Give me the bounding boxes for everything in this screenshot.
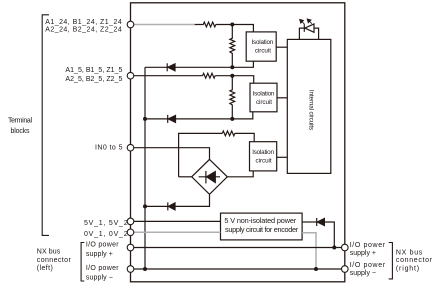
wire: bridge left vertex: [179, 176, 192, 178]
junction: R1/R2 top: [230, 23, 234, 27]
wire: U2 to internal circuits: [277, 97, 287, 99]
svg-text:circuit: circuit: [255, 48, 271, 55]
svg-text:NX bus: NX bus: [37, 248, 61, 255]
terminal circles: [127, 21, 348, 272]
svg-text:I/O power: I/O power: [86, 265, 119, 272]
wire: bridge bottom to 0V bus: [175, 194, 210, 206]
wire: 5V input: [134, 75, 203, 77]
isolation circuit U1: [246, 32, 276, 61]
svg-text:A2_24, B2_24, Z2_24: A2_24, B2_24, Z2_24: [45, 27, 122, 34]
LED PL1: [304, 24, 314, 32]
wire: power box to D4: [302, 221, 317, 223]
terminal A_5: [127, 72, 134, 79]
svg-text:5V_1, 5V_2: 5V_1, 5V_2: [84, 220, 128, 227]
junction: gray drop on - rail: [314, 267, 318, 271]
wire: U1 bottom return: [175, 61, 253, 67]
svg-text:Terminal: Terminal: [8, 118, 32, 125]
diode D3: [168, 202, 175, 210]
terminal I/O + left: [127, 244, 134, 251]
svg-text:NX bus: NX bus: [396, 250, 423, 257]
resistor R5 bridge loop: [222, 131, 235, 136]
junction: R2 bottom return: [230, 65, 234, 69]
wire: power box gray return to I/O power -: [302, 233, 316, 269]
wire: D4 to I/O power +: [324, 222, 334, 248]
svg-text:A2_5, B2_5, Z2_5: A2_5, B2_5, Z2_5: [65, 76, 122, 83]
brackets: [42, 15, 392, 281]
svg-text:Isolation: Isolation: [253, 90, 275, 97]
wire: IN0 to 5 input to bridge top: [134, 148, 210, 160]
svg-text:Isolation: Isolation: [252, 149, 274, 156]
svg-text:0V_1, 0V_2: 0V_1, 0V_2: [84, 231, 128, 238]
bracket: NX bus connector left: [81, 243, 84, 282]
diode D4: [317, 218, 325, 226]
diode bridge DB1: [192, 159, 228, 194]
svg-text:A1_24, B1_24, Z1_24: A1_24, B1_24, Z1_24: [45, 19, 122, 26]
isolation circuit U3: [250, 142, 277, 171]
wire: 0V_1 gray to power supply box: [134, 231, 221, 233]
bracket: NX bus connector right: [389, 243, 393, 279]
svg-text:Internal circuits: Internal circuits: [307, 90, 314, 130]
svg-text:I/O power: I/O power: [350, 262, 386, 269]
wire: 24V input gray wire: [134, 24, 195, 26]
resistor R1 series 24V: [195, 22, 216, 27]
svg-text:supply −: supply −: [350, 270, 376, 277]
svg-text:supply +: supply +: [350, 250, 376, 257]
wire: 0V bus vertical: [144, 67, 146, 269]
diode D1: [167, 63, 175, 71]
terminal I/O + right: [342, 244, 349, 251]
wire: R3 to isolation circuit U2: [215, 76, 254, 84]
LED arrow 2: [307, 19, 312, 24]
svg-text:(left): (left): [37, 265, 53, 272]
junction: R4 bottom return: [230, 117, 234, 121]
wire: return to 0V bus corner: [145, 66, 167, 68]
LED PL1 loop: [299, 28, 318, 39]
wire: I/O power supply + rail: [134, 247, 341, 249]
resistor R4 parallel 5V: [230, 76, 235, 119]
bridge inner diode: [199, 171, 220, 184]
terminal I/O - right: [342, 266, 349, 273]
svg-text:connector: connector: [396, 257, 433, 264]
svg-text:supply −: supply −: [86, 274, 113, 281]
junction: bus and 5V return: [143, 117, 147, 121]
svg-text:IN0 to 5: IN0 to 5: [95, 145, 123, 152]
junction: bus and bridge return: [143, 204, 147, 208]
svg-text:I/O power: I/O power: [350, 242, 386, 249]
svg-text:5 V non-isolated power: 5 V non-isolated power: [224, 216, 296, 225]
resistor R2 parallel 24V: [230, 25, 235, 68]
terminal I/O - left: [127, 266, 134, 273]
wire: bridge loop top left: [179, 133, 223, 176]
junction: R3/R4 top: [230, 74, 234, 78]
wire: U1 to internal circuits: [276, 46, 287, 48]
svg-text:A1_5, B1_5, Z1_5: A1_5, B1_5, Z1_5: [65, 67, 122, 74]
resistor R3 series 5V: [203, 73, 216, 78]
wire: R5 to isolation circuit U3: [235, 133, 254, 141]
junction: bus and I/O - rail: [143, 267, 147, 271]
terminal IN0-5: [127, 144, 134, 151]
wire: D3 to 0V bus: [145, 205, 168, 207]
isolation circuit U2: [250, 83, 277, 112]
junction: D4 drop on + rail: [332, 246, 336, 250]
unit enclosure box: [131, 3, 345, 282]
diode D2: [168, 115, 176, 123]
wire: return to 0V bus: [145, 118, 168, 120]
svg-text:(right): (right): [396, 266, 419, 273]
svg-text:I/O power: I/O power: [86, 241, 119, 248]
box texts: [224, 39, 314, 234]
svg-text:supply +: supply +: [86, 251, 113, 258]
svg-text:connector: connector: [37, 257, 72, 264]
wire: U3 to internal circuits: [277, 156, 288, 158]
svg-text:circuit: circuit: [256, 157, 272, 164]
bracket: terminal blocks: [42, 15, 49, 236]
wire: U2 bottom return: [176, 112, 253, 119]
terminal A_24: [127, 21, 134, 28]
terminal 5V: [127, 218, 134, 225]
svg-text:blocks: blocks: [11, 128, 31, 135]
wire: bridge right vertex to U3 bottom: [227, 171, 253, 177]
wire: 5V_1 to power supply box: [134, 220, 221, 222]
5V non-isolated power supply box: [221, 213, 303, 240]
wire: R1 to isolation circuit U1: [216, 25, 254, 32]
wire: I/O power supply - rail: [134, 268, 341, 270]
LED arrow 1: [300, 20, 305, 25]
terminal 0V: [127, 229, 134, 236]
internal circuits U4: [287, 39, 331, 173]
svg-text:circuit: circuit: [256, 99, 272, 106]
svg-text:Isolation: Isolation: [252, 39, 274, 46]
svg-text:supply circuit for encoder: supply circuit for encoder: [225, 225, 299, 234]
